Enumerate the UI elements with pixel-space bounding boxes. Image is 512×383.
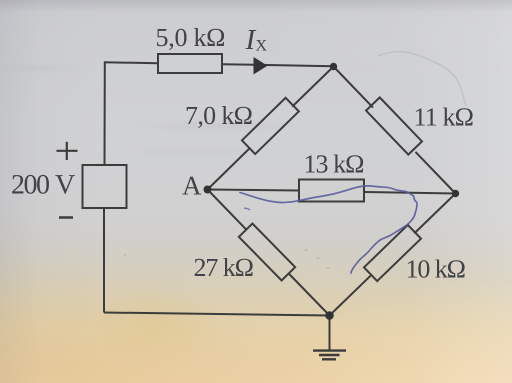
current arrow Ix — [254, 57, 268, 75]
node bottom junction — [325, 311, 334, 320]
wire: battery top to top-left corner up — [105, 62, 159, 165]
blue pen scribble — [240, 186, 417, 273]
resistor 13k body — [299, 180, 364, 202]
resistor 27k body — [239, 224, 295, 281]
svg-text:X: X — [256, 38, 268, 55]
wire: bottom node to ground — [329, 316, 331, 351]
wire: bottom run to bottom node — [104, 313, 330, 316]
resistor 7.0k body — [242, 98, 299, 154]
svg-text:A: A — [182, 171, 202, 201]
node right junction — [452, 190, 459, 197]
wire: 13k resistor to right node — [364, 192, 456, 194]
faint page crease top right — [378, 52, 466, 106]
plus sign of source — [57, 142, 78, 160]
node top junction — [330, 63, 337, 70]
svg-text:10 kΩ: 10 kΩ — [406, 255, 467, 284]
blue pen small mark — [244, 208, 250, 210]
svg-text:11 kΩ: 11 kΩ — [414, 103, 475, 132]
svg-text:200: 200 — [11, 170, 50, 201]
wire: node A to 13k resistor — [208, 190, 300, 191]
svg-text:27 kΩ: 27 kΩ — [194, 253, 255, 282]
resistor 10k body — [364, 225, 421, 281]
resistor 11k body — [366, 97, 422, 154]
wire: 7k resistor to top node — [292, 67, 333, 107]
wire: 11k resistor to right node — [416, 152, 456, 194]
svg-text:I: I — [245, 24, 257, 56]
minus sign of source — [59, 216, 73, 219]
ground symbol — [313, 351, 346, 360]
resistor 5.0k body — [158, 54, 222, 73]
svg-text:V: V — [55, 170, 75, 201]
faint specks — [124, 249, 331, 269]
wire: battery bottom down — [103, 208, 105, 313]
wire: node A to 27k resistor — [208, 190, 247, 230]
wire: 5k resistor right to top node — [222, 64, 334, 66]
battery source box 200V — [83, 165, 127, 208]
wire: bottom node to 10k resistor — [330, 276, 371, 316]
svg-text:13 kΩ: 13 kΩ — [304, 150, 365, 179]
svg-text:5,0 kΩ: 5,0 kΩ — [156, 23, 226, 52]
wire: node A to 7k resistor — [208, 149, 250, 190]
node A junction — [204, 186, 212, 194]
svg-text:7,0 kΩ: 7,0 kΩ — [185, 101, 253, 130]
wire: 10k resistor to right node — [414, 194, 455, 234]
wire: 27k resistor to bottom node — [288, 273, 329, 316]
wire: top node to 11k resistor — [334, 67, 374, 108]
